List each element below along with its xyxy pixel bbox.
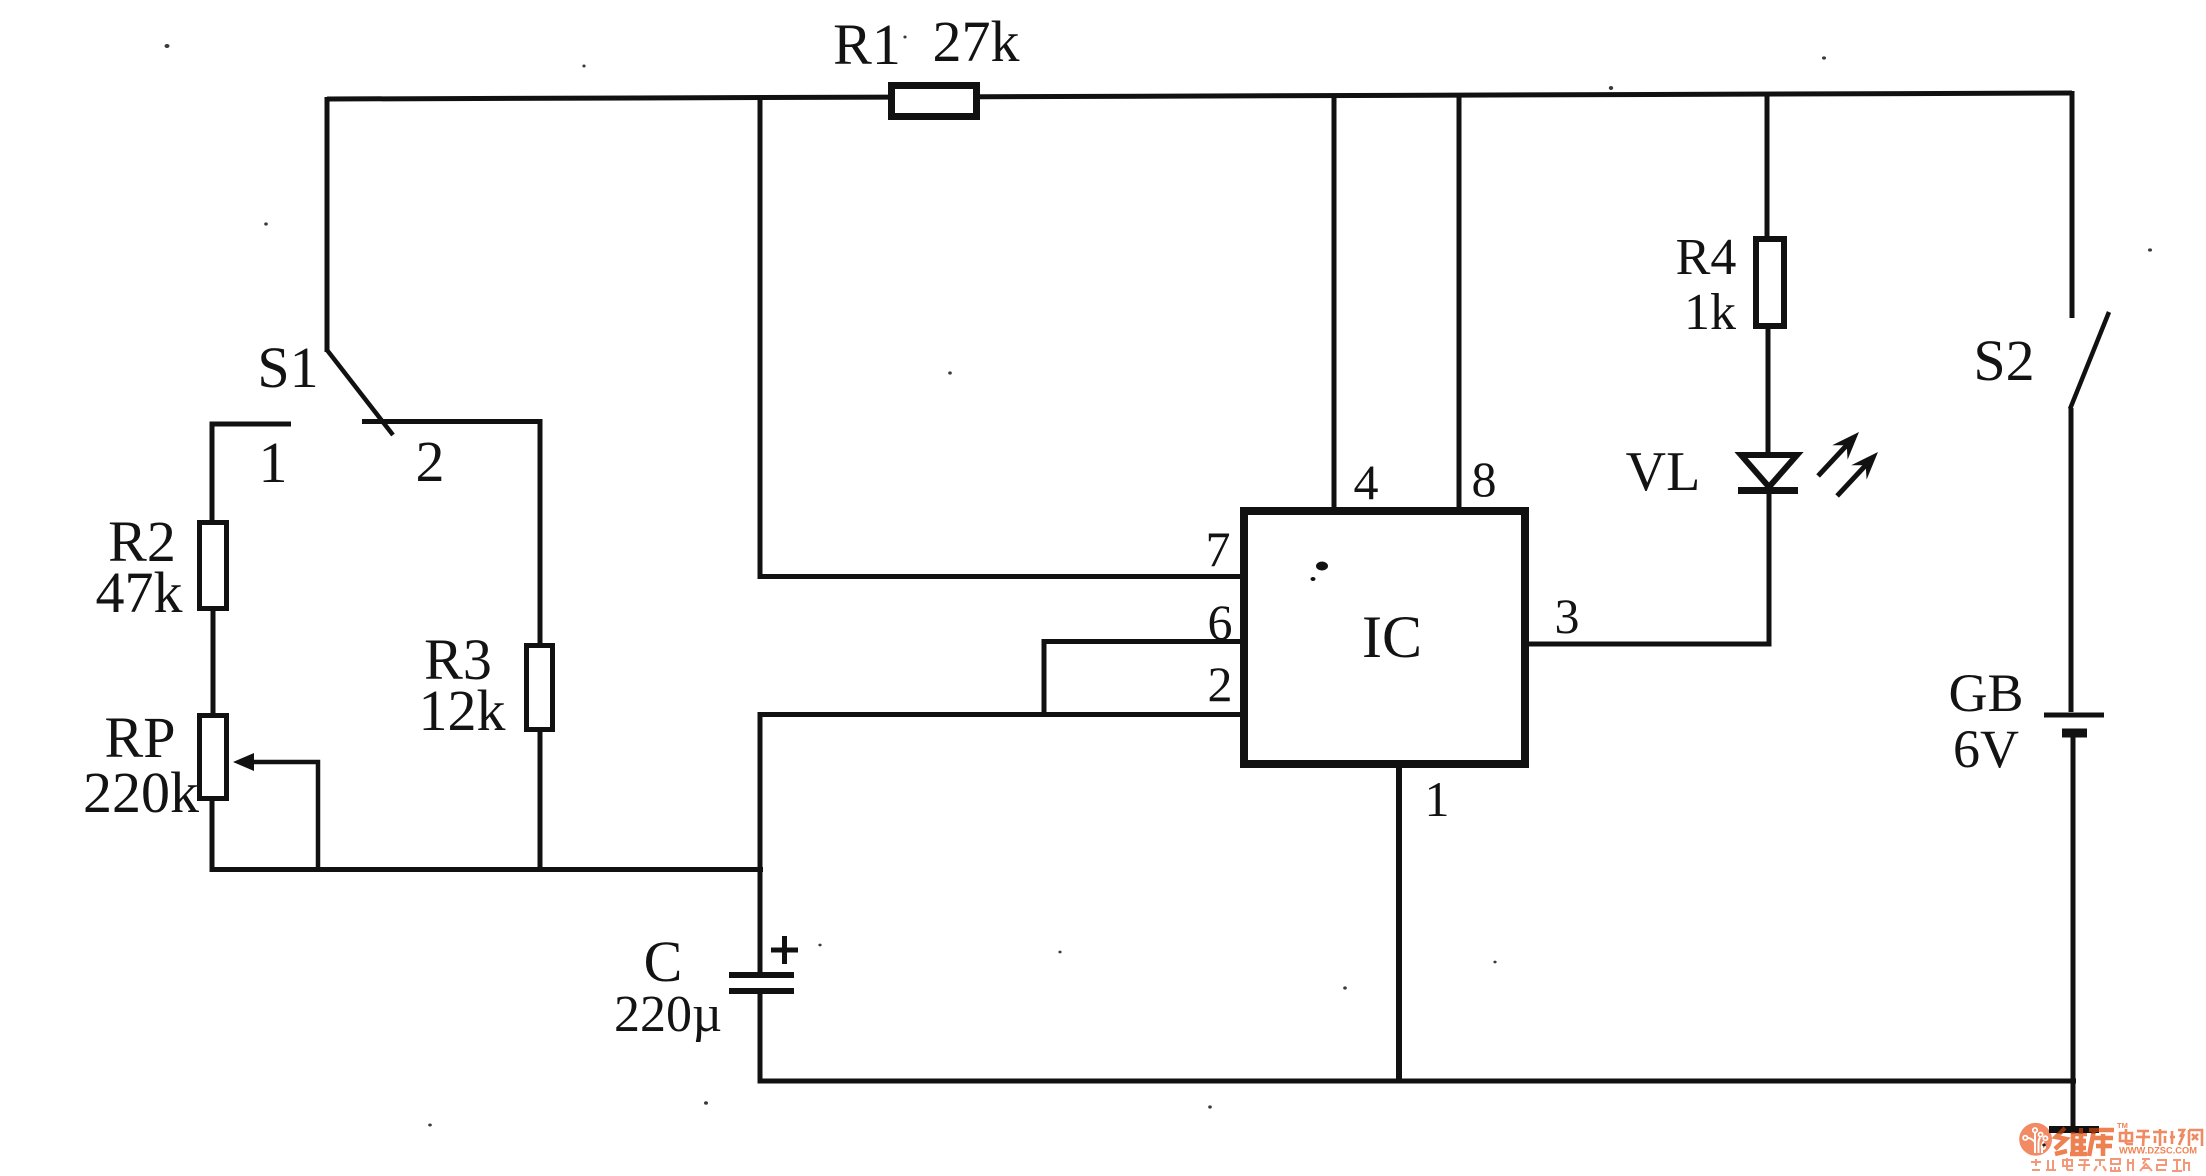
svg-text:R4: R4 — [1676, 229, 1737, 286]
svg-text:4: 4 — [1354, 454, 1379, 510]
svg-text:12k: 12k — [419, 678, 506, 743]
svg-text:TM: TM — [2117, 1121, 2128, 1130]
svg-text:IC: IC — [1362, 604, 1422, 670]
svg-text:47k: 47k — [96, 560, 183, 625]
svg-text:1: 1 — [1425, 771, 1450, 827]
svg-text:27k: 27k — [933, 9, 1020, 74]
svg-text:6: 6 — [1208, 594, 1233, 650]
svg-text:GB: GB — [1948, 663, 2023, 723]
svg-text:VL: VL — [1626, 441, 1701, 503]
svg-text:2: 2 — [1208, 656, 1233, 712]
svg-text:220k: 220k — [83, 760, 199, 825]
svg-text:220µ: 220µ — [614, 986, 722, 1043]
svg-text:S2: S2 — [1973, 328, 2034, 393]
svg-text:1k: 1k — [1684, 284, 1736, 341]
svg-text:2: 2 — [416, 429, 445, 494]
svg-text:1: 1 — [259, 430, 288, 495]
svg-text:6V: 6V — [1953, 719, 2019, 779]
svg-text:R1: R1 — [833, 12, 901, 77]
svg-text:8: 8 — [1472, 451, 1497, 507]
svg-text:C: C — [644, 929, 683, 994]
svg-text:WWW.DZSC.COM: WWW.DZSC.COM — [2119, 1146, 2197, 1156]
svg-text:3: 3 — [1555, 588, 1580, 644]
svg-text:S1: S1 — [257, 335, 318, 400]
svg-text:7: 7 — [1206, 521, 1231, 577]
